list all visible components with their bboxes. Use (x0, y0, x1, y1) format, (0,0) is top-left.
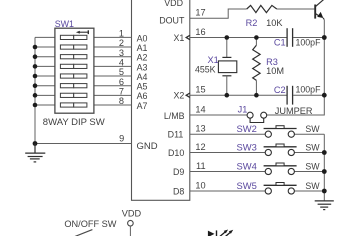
svg-text:100pF: 100pF (296, 37, 322, 47)
svg-text:13: 13 (195, 124, 205, 134)
svg-text:A0: A0 (137, 33, 148, 43)
svg-text:7: 7 (119, 86, 124, 96)
push button SW3 / D10 pin12 (264, 144, 297, 156)
svg-text:6: 6 (119, 77, 124, 87)
svg-text:A3: A3 (137, 62, 148, 72)
svg-text:SW: SW (305, 124, 320, 134)
wire A0 row1 (35, 36, 132, 38)
svg-text:C2: C2 (274, 85, 286, 95)
svg-text:15: 15 (195, 85, 205, 95)
svg-text:A4: A4 (137, 72, 148, 82)
svg-text:16: 16 (195, 27, 205, 37)
wire ground bus left (34, 37, 36, 153)
junction dots on left bus (33, 45, 38, 146)
svg-text:SW4: SW4 (237, 160, 257, 171)
svg-text:11: 11 (196, 161, 206, 171)
wire SW2 / D11 pin13 row (190, 133, 265, 135)
push button SW5 / D8 pin10 (264, 183, 297, 195)
SW1 switch cell row5 (60, 74, 86, 78)
junction dots X1/X2 rows (225, 35, 327, 98)
svg-text:2: 2 (119, 38, 124, 48)
wire A7 row8 (35, 104, 132, 106)
svg-text:17: 17 (195, 8, 205, 18)
svg-text:12: 12 (195, 142, 205, 152)
svg-text:D9: D9 (173, 167, 184, 177)
svg-text:10M: 10M (266, 66, 284, 76)
wire SW4 / D9 pin11 row (190, 171, 265, 173)
SW1 switch cell row6 (60, 84, 86, 88)
svg-text:D11: D11 (168, 130, 184, 140)
wire SW3 / D10 pin12 row (190, 152, 265, 154)
svg-text:R2: R2 (246, 18, 258, 28)
svg-text:4: 4 (119, 58, 124, 68)
J1 shunt link (250, 118, 264, 122)
svg-text:8: 8 (119, 96, 124, 106)
wire DOUT pin17 to R2 (190, 9, 247, 18)
reference designators (purple) (55, 18, 286, 191)
svg-text:A5: A5 (137, 82, 148, 92)
svg-text:SW3: SW3 (237, 141, 257, 152)
svg-text:5: 5 (119, 67, 124, 77)
resistor R3 10M (253, 38, 260, 96)
svg-text:X2: X2 (173, 91, 184, 101)
push button SW4 / D9 pin11 (264, 163, 297, 175)
SW1 switch cell row3 (60, 55, 86, 59)
wire L/MB pin14 to J1 (190, 114, 247, 116)
capacitor C2 100pF (287, 86, 293, 105)
wire A1 row2 (35, 46, 132, 48)
wire X2 pin15 row (190, 94, 287, 96)
svg-text:GND: GND (137, 141, 158, 152)
pin15 chevron (186, 93, 190, 97)
pin16 chevron (186, 35, 190, 39)
wire switch ground rail right (323, 134, 325, 201)
svg-text:SW1: SW1 (55, 19, 74, 29)
wire A5 row6 (35, 85, 132, 87)
push button SW2 / D11 pin13 (264, 126, 297, 138)
svg-text:A2: A2 (137, 53, 148, 63)
LED D1 (bottom, partially cut) (208, 230, 233, 238)
SW1 switch cell row8 (60, 103, 86, 107)
svg-text:A1: A1 (137, 43, 148, 53)
svg-text:SW: SW (305, 181, 320, 191)
svg-text:1: 1 (119, 29, 124, 39)
svg-text:10: 10 (195, 180, 205, 190)
svg-text:100pF: 100pF (296, 85, 322, 95)
svg-text:JUMPER: JUMPER (275, 106, 313, 116)
svg-text:10K: 10K (266, 18, 283, 28)
svg-text:SW5: SW5 (237, 180, 257, 191)
SW1 switch cell row1 (60, 35, 86, 39)
value labels (195, 18, 321, 191)
capacitor C1 100pF (287, 28, 293, 47)
svg-text:8WAY DIP SW: 8WAY DIP SW (43, 117, 105, 128)
jumper J1 pads (247, 112, 267, 118)
wire emitter rail down to jumper row (267, 20, 325, 115)
svg-text:3: 3 (119, 48, 124, 58)
ground (right) (315, 201, 334, 210)
svg-text:SW2: SW2 (237, 123, 257, 134)
junction dots on switch rail (322, 150, 327, 193)
pin numbers (right) (195, 8, 205, 191)
svg-text:X1: X1 (173, 33, 184, 43)
wire A2 row3 (35, 56, 132, 58)
svg-text:J1: J1 (238, 104, 248, 114)
pin numbers 1-8 (left) (119, 29, 124, 144)
svg-text:455K: 455K (195, 65, 216, 75)
wire R2 to Q1 base (277, 8, 315, 10)
transistor Q1 (315, 0, 324, 20)
wire X1 pin16 row (190, 37, 287, 39)
8-way DIP switch SW1 body (55, 28, 94, 113)
svg-text:14: 14 (195, 104, 205, 114)
ON/OFF switch lever (75, 230, 93, 237)
svg-text:A6: A6 (137, 91, 148, 101)
annotation texts (43, 117, 142, 229)
wire SW5 / D8 pin10 row (190, 190, 265, 192)
svg-text:SW: SW (305, 142, 320, 152)
SW1 switch cell row7 (60, 93, 86, 97)
svg-text:9: 9 (119, 133, 124, 143)
svg-text:SW: SW (305, 161, 320, 171)
IC U1 body (132, 0, 190, 200)
wire A6 row7 (35, 94, 132, 96)
svg-text:X1: X1 (208, 55, 219, 65)
SW1 switch cell row2 (60, 45, 86, 49)
VDD terminal bottom (128, 220, 134, 236)
svg-text:D10: D10 (168, 148, 184, 158)
wire GND row9 (35, 143, 132, 145)
resistor R2 10K (247, 5, 277, 12)
SW1 switch cell row4 (60, 64, 86, 68)
svg-text:VDD: VDD (164, 0, 183, 8)
svg-text:L/MB: L/MB (164, 111, 185, 121)
wire A3 row4 (35, 65, 132, 67)
svg-text:D8: D8 (173, 186, 184, 196)
svg-text:C1: C1 (274, 38, 286, 48)
svg-text:VDD: VDD (122, 209, 142, 219)
wire A4 row5 (35, 75, 132, 77)
IC pin labels (137, 0, 185, 196)
svg-text:DOUT: DOUT (159, 16, 185, 26)
svg-text:A7: A7 (137, 101, 148, 111)
ceramic resonator X1 455K (218, 38, 236, 96)
SW1 slide direction arrow (76, 30, 88, 34)
ground (left) (25, 144, 45, 162)
svg-text:ON/OFF SW: ON/OFF SW (64, 219, 116, 229)
